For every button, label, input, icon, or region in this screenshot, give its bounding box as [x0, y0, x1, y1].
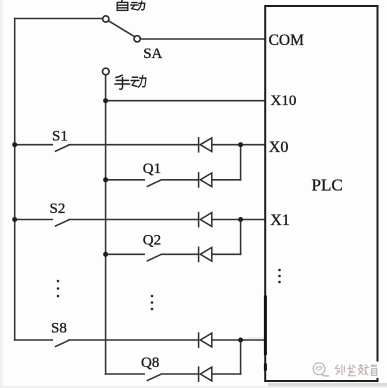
svg-text:Q8: Q8 [141, 355, 159, 371]
svg-text:S8: S8 [51, 321, 67, 337]
svg-text:SA: SA [143, 46, 162, 62]
svg-text:PLC: PLC [312, 175, 343, 194]
svg-text:S2: S2 [50, 201, 66, 217]
svg-text:X1: X1 [270, 212, 290, 229]
svg-text:Q2: Q2 [143, 233, 161, 249]
svg-text:COM: COM [269, 32, 305, 49]
svg-text:S1: S1 [52, 128, 68, 144]
svg-text:X10: X10 [271, 93, 297, 109]
svg-text:X0: X0 [269, 139, 289, 156]
svg-text:Q1: Q1 [143, 161, 161, 177]
